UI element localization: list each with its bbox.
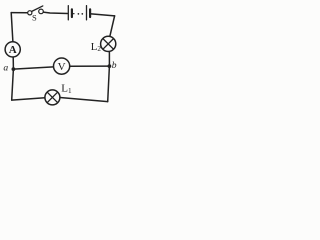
svg-text:L1: L1 [61,83,72,95]
lamp L2 [101,36,116,51]
lamp L1 [45,90,60,105]
svg-text:L2: L2 [91,41,102,53]
battery cell 2 long plate [86,6,88,20]
wire top-left horizontal (corner to switch) [11,12,28,14]
svg-text:V: V [58,61,66,73]
wire left vertical (corner to ammeter top) [11,13,13,42]
battery cell 2 short plate [89,9,91,17]
wire voltmeter to node b [70,65,110,67]
battery cell 1 long plate [67,6,69,20]
wire lamp L2 bottom to node b [108,51,110,66]
wire lamp L1 to bottom-right corner [60,98,108,102]
wire right vertical (corner to lamp L2 top) [110,16,115,37]
svg-text:b: b [112,60,117,71]
node a junction dot [12,67,16,71]
wire node b to bottom-right corner [108,66,110,102]
wire node a to bottom-left corner [12,69,14,100]
switch S [28,6,44,15]
svg-text:a: a [3,62,8,73]
battery cell 1 stub [72,13,74,15]
node b junction dot [108,64,112,68]
wire switch to battery [43,12,67,13]
battery ellipsis dot 1 [78,13,80,15]
svg-text:A: A [9,44,17,56]
wire bottom-left corner to lamp L1 [12,98,45,100]
svg-text:S: S [32,13,37,23]
battery ellipsis dot 2 [81,13,83,15]
wire ammeter bottom to node a [12,57,14,69]
battery cell 1 short plate [71,9,73,17]
ammeter A [5,42,20,57]
voltmeter V [54,58,70,74]
wire node a to voltmeter [13,67,53,69]
wire battery to top-right corner [91,14,114,16]
